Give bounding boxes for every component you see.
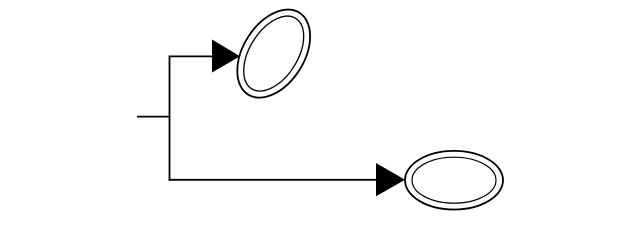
arrowhead top branch [212,40,240,73]
wire input stub [137,116,170,118]
wire bottom branch [169,179,377,181]
wire vertical bus [169,56,171,181]
node bottom state (double ellipse) [405,151,503,210]
wire top branch [169,55,213,57]
node top state (rotated double ellipse) [222,0,325,111]
arrowhead bottom branch [376,163,405,196]
